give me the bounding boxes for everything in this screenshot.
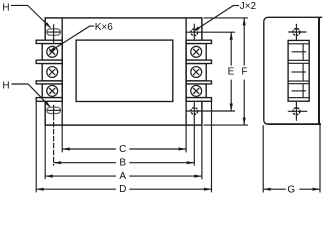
left terminal segment 3: [42, 84, 62, 98]
terminal screw K 1: [47, 46, 58, 57]
svg-text:K×6: K×6: [95, 22, 114, 33]
right barrier 3: [186, 81, 211, 84]
left terminal segment 2: [42, 64, 62, 81]
slot H bottom centerline horizontal: [47, 109, 61, 111]
dimension line G: [263, 188, 286, 190]
extension line C left: [61, 125, 63, 152]
slot H top centerline vertical: [53, 24, 55, 42]
right terminal face line: [185, 18, 187, 125]
leader H top arrowhead: [45, 22, 51, 28]
mounting hole J bottom: [191, 108, 198, 115]
svg-text:G: G: [287, 185, 295, 196]
right terminal segment 2: [186, 64, 206, 81]
svg-text:C: C: [119, 144, 126, 155]
nameplate label rectangle: [76, 40, 173, 101]
extension line A right: [201, 125, 203, 179]
terminal screw K 2: [47, 67, 58, 78]
side stack inner verticals: [302, 44, 304, 98]
dimension line F: [243, 18, 245, 66]
extension line A left: [44, 125, 46, 179]
left barrier 4: [36, 98, 62, 102]
side view lower right edge: [319, 124, 321, 192]
dimension line B: [54, 162, 116, 164]
svg-text:H: H: [2, 2, 9, 13]
slot H bottom centerline vertical: [53, 105, 55, 115]
svg-text:D: D: [119, 184, 126, 195]
hole J top crosshair + E extension: [186, 31, 235, 33]
right terminal segment 3: [186, 84, 206, 98]
leader H bottom: [11, 84, 50, 107]
side hole top crosshair horizontal: [288, 31, 306, 33]
terminal screw K 4: [191, 46, 202, 57]
slot H top centerline horizontal: [47, 31, 61, 33]
extension line B left (chain): [53, 115, 55, 166]
side view upper left edge: [263, 21, 265, 120]
front view flange outline: [45, 18, 202, 125]
svg-text:J×2: J×2: [240, 1, 257, 12]
terminal screw K 5: [191, 67, 202, 78]
terminal screw K 6: [191, 85, 202, 96]
left terminal face line: [61, 18, 63, 125]
leader Kx6 arrowhead: [49, 47, 56, 52]
side view top-left corner arc: [264, 17, 268, 21]
side view right edge thick: [318, 17, 320, 124]
side hole top crosshair vertical: [295, 24, 297, 41]
side hole bottom crosshair horizontal: [288, 110, 308, 112]
right terminal segment 1: [186, 44, 206, 61]
left barrier 3: [36, 81, 62, 84]
dimension line E: [230, 32, 232, 65]
side view top edge: [268, 16, 322, 18]
dimension line D: [36, 188, 116, 190]
right barrier 1: [186, 40, 211, 43]
extension line D right: [211, 102, 213, 193]
side hole top: [293, 29, 300, 36]
F extension top: [204, 17, 248, 19]
side view mid line: [268, 123, 322, 125]
mounting slot H bottom: [47, 107, 61, 113]
left barrier 1: [36, 40, 62, 43]
right barrier 4: [186, 98, 211, 102]
extension line B right: [193, 102, 195, 166]
mounting slot H top: [47, 29, 61, 35]
svg-text:E: E: [228, 66, 235, 77]
svg-text:F: F: [241, 66, 247, 77]
F extension bottom: [204, 124, 248, 126]
left terminal segment 1: [42, 44, 62, 61]
left barrier 2: [36, 60, 62, 63]
side hole bottom: [293, 108, 300, 115]
hole J top crosshair vertical: [193, 24, 195, 40]
side view bottom-left corner arc: [264, 120, 268, 124]
extension line C right: [185, 125, 187, 152]
svg-text:B: B: [119, 158, 126, 169]
terminal screw K 3: [47, 85, 58, 96]
right barrier 2: [186, 60, 211, 63]
hole J bottom crosshair + E extension: [186, 110, 235, 112]
svg-text:A: A: [119, 171, 126, 182]
leader Jx2: [194, 6, 239, 32]
leader H top: [11, 5, 50, 27]
side terminal stack box: [288, 40, 309, 101]
side screw slot lines: [292, 52, 307, 91]
side stack strip lines: [288, 44, 309, 98]
side view lower left edge: [262, 125, 264, 192]
dimension line C: [62, 148, 116, 150]
dimension line A: [45, 175, 116, 177]
svg-text:H: H: [2, 80, 9, 91]
mounting hole J top: [191, 29, 198, 36]
leader Kx6: [50, 26, 94, 51]
extension line D left: [35, 102, 37, 193]
leader H bottom arrowhead: [45, 101, 51, 107]
leader Jx2 arrowhead: [193, 27, 200, 32]
side hole bottom crosshair vertical: [295, 102, 297, 121]
